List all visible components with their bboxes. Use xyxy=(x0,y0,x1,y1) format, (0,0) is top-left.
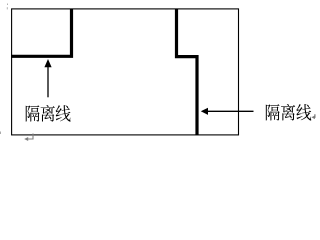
label right 隔离线 xyxy=(266,104,311,121)
left arrow head xyxy=(201,108,208,115)
gray return mark right of right label xyxy=(313,114,315,117)
up arrow shaft xyxy=(47,66,49,98)
up arrow head xyxy=(44,59,51,67)
faint mark top-left xyxy=(7,4,8,6)
left arrow shaft xyxy=(207,110,254,112)
gray return mark bottom-left xyxy=(27,134,34,140)
thick isolation line right (vertical, step, vertical to bottom) xyxy=(177,9,198,135)
label left 隔离线 xyxy=(26,105,71,122)
thick isolation line left (vertical + horizontal L) xyxy=(11,9,72,56)
outer rectangle border xyxy=(12,9,239,135)
